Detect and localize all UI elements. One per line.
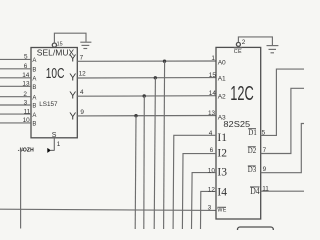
junction dot on Y2 (154, 76, 157, 79)
svg-text:10: 10 (208, 167, 216, 174)
ground for 10C (80, 42, 91, 48)
svg-text:A: A (32, 58, 36, 64)
svg-text:1: 1 (57, 141, 61, 148)
svg-text:9: 9 (263, 166, 267, 173)
svg-text:6: 6 (24, 63, 28, 70)
svg-text:B: B (32, 68, 36, 74)
svg-text:Y: Y (69, 53, 76, 65)
svg-text:Y: Y (69, 111, 76, 123)
wire Y1 to A0 (77, 60, 216, 62)
wire D4 (261, 190, 304, 192)
svg-text:I2: I2 (217, 147, 227, 159)
svg-text:5: 5 (24, 54, 28, 61)
svg-text:I1: I1 (217, 132, 227, 144)
svg-text:Y: Y (69, 72, 76, 84)
svg-text:I4: I4 (217, 187, 227, 199)
input wire 2B pin 13 (0, 85, 31, 87)
svg-text:15: 15 (209, 72, 217, 79)
svg-text:10: 10 (23, 117, 31, 124)
input wire 3B pin 3 (0, 104, 31, 106)
svg-text:LS157: LS157 (39, 101, 57, 108)
wire D2 (261, 88, 304, 153)
CE pin 2 circle (236, 42, 240, 46)
svg-text:I3: I3 (217, 167, 227, 179)
svg-text:7: 7 (80, 55, 84, 62)
svg-text:B: B (32, 122, 36, 128)
svg-text:WE: WE (217, 208, 226, 214)
wire -I/OZH down to page bottom (21, 150, 24, 228)
svg-text:6: 6 (210, 147, 214, 154)
wire I4 (201, 191, 217, 229)
svg-text:B: B (32, 104, 36, 110)
svg-text:15: 15 (57, 42, 63, 48)
RAM IC U12C box (82S25) (216, 47, 261, 219)
address bus wire down 3 (143, 96, 146, 229)
address bus wire down 2 (154, 78, 155, 229)
wire Y4 to A3 (77, 115, 216, 117)
svg-text:10C: 10C (46, 66, 65, 82)
address bus wire down 1 (164, 61, 165, 229)
input wire 2A pin 14 (0, 77, 31, 79)
svg-text:82S25: 82S25 (223, 120, 251, 129)
svg-text:12: 12 (79, 70, 87, 77)
wire Y3 to A2 (77, 95, 216, 98)
svg-text:CE: CE (234, 49, 242, 55)
input wire 4A pin 11 (0, 113, 31, 115)
svg-text:9: 9 (80, 109, 84, 116)
svg-text:3: 3 (208, 204, 212, 211)
wire I2 (182, 154, 216, 229)
svg-text:A0: A0 (218, 59, 226, 66)
svg-text:A1: A1 (218, 76, 226, 83)
ground for 12C (267, 46, 279, 53)
svg-text:A: A (32, 95, 36, 101)
svg-text:1: 1 (211, 55, 215, 62)
svg-text:14: 14 (22, 72, 30, 79)
input wire 1A pin 5 (0, 58, 31, 60)
arrowhead into select stub (47, 148, 51, 153)
next IC box below (partially visible) (238, 227, 274, 239)
wire arrow to stub (51, 149, 55, 151)
wire I1 (173, 135, 216, 229)
address bus wire down 4 (134, 116, 137, 229)
wire D3 (261, 124, 304, 173)
junction dot on Y3 (143, 94, 146, 97)
svg-text:14: 14 (209, 90, 217, 97)
svg-text:Y: Y (69, 90, 76, 102)
svg-text:13: 13 (208, 110, 216, 117)
svg-text:B: B (32, 85, 36, 91)
wire strobe to ground (54, 33, 86, 43)
svg-text:13: 13 (22, 81, 30, 88)
svg-text:S: S (52, 132, 57, 139)
svg-text:A3: A3 (218, 114, 226, 121)
strobe pin 15 circle (52, 43, 56, 47)
svg-text:3: 3 (24, 99, 28, 106)
select pin 1 stub (53, 138, 55, 150)
wire D1 (261, 69, 304, 135)
svg-text:A2: A2 (218, 93, 226, 100)
input wire 4B pin 10 (0, 122, 31, 124)
op IC U10C box (74LS157 SEL/MUX) (31, 48, 77, 138)
svg-text:2: 2 (23, 91, 27, 98)
svg-text:12C: 12C (230, 82, 254, 105)
svg-text:4: 4 (80, 89, 84, 96)
svg-text:4: 4 (209, 130, 213, 137)
input wire 3A pin 2 (0, 96, 31, 98)
wire CE to ground (238, 37, 272, 45)
svg-text:12: 12 (208, 186, 216, 193)
junction dot on Y1 (163, 60, 166, 63)
svg-text:2: 2 (242, 39, 246, 46)
svg-text:A: A (32, 77, 36, 83)
input wire 1B pin 6 (0, 68, 31, 70)
junction dot on Y4 (134, 114, 137, 117)
net WE long horizontal wire (0, 209, 216, 210)
svg-text:A: A (32, 113, 36, 119)
wire I3 (192, 173, 217, 229)
wire Y2 to A1 (77, 77, 216, 79)
svg-text:11: 11 (24, 108, 31, 115)
